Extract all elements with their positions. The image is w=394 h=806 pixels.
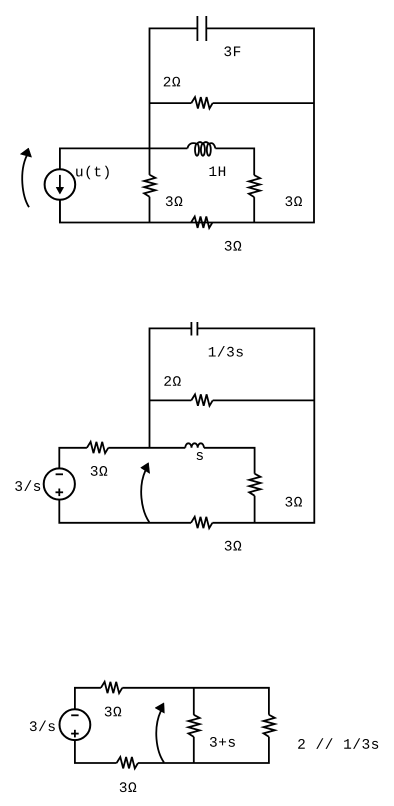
wire middle branch upper lead xyxy=(193,688,195,715)
wire top wire right segment and right rail xyxy=(197,328,314,522)
label 3-ohm (R6) xyxy=(91,466,108,476)
current source I1 u(t) xyxy=(45,169,76,200)
label 3-ohm (R4) xyxy=(225,241,242,251)
wire source V1 bottom lead and bottom rail left xyxy=(59,500,191,523)
wire source V1 top lead to series row xyxy=(59,448,87,469)
inductor L2 s xyxy=(185,443,204,448)
label 2-ohm (R5) xyxy=(164,376,180,386)
label u(t) xyxy=(76,166,109,180)
label 1H xyxy=(209,166,225,176)
label 1/3s xyxy=(209,346,243,357)
wire R6 to inductor L2 xyxy=(108,447,185,449)
wire 2-ohm row left lead xyxy=(150,399,192,401)
resistor R8 3-ohm bottom xyxy=(191,517,212,528)
label 3-ohm (R12) xyxy=(120,782,137,792)
resistor R9 3-ohm top xyxy=(101,682,122,693)
label 3/s (V2) xyxy=(30,720,55,731)
label 3/s (V1) xyxy=(15,480,40,491)
capacitor C1 3F plates xyxy=(197,16,206,41)
wire middle branch lower lead xyxy=(253,197,255,222)
label 3F xyxy=(224,46,240,56)
resistor R10 3+s vertical xyxy=(188,715,199,737)
wire top rail to right branch xyxy=(122,688,269,715)
label 3-ohm (R2) xyxy=(166,196,183,206)
wire source V2 top lead to top rail xyxy=(75,688,101,710)
wire source I1 bottom lead xyxy=(59,200,61,223)
resistor R5 2-ohm xyxy=(191,394,212,405)
label 2-ohm xyxy=(164,77,180,87)
inductor L1 1H xyxy=(187,142,215,156)
mesh arrow circuit 3 xyxy=(155,703,164,763)
circuit 1: RLC network driven by current source u(t) xyxy=(20,16,314,251)
resistor R3 3-ohm middle vertical xyxy=(249,175,260,197)
mesh arrow circuit 2 xyxy=(141,463,150,523)
label 3-ohm (R3) xyxy=(285,196,302,206)
label 3-ohm (R8) xyxy=(225,541,242,551)
resistor R12 3-ohm bottom xyxy=(117,757,138,768)
circuit 3: simplified equivalent network xyxy=(30,682,378,792)
mesh arrow circuit 1 xyxy=(20,148,31,207)
resistor R4 3-ohm bottom xyxy=(191,217,212,228)
wire top wire left segment with corner down the left rail xyxy=(150,28,198,175)
wire top wire left segment with corner down left rail xyxy=(150,328,192,447)
wire middle branch lower lead xyxy=(254,496,256,523)
voltage source V2 3/s xyxy=(60,709,91,740)
wire middle branch lower lead xyxy=(193,737,195,763)
label 3-ohm (R9) xyxy=(105,707,122,717)
circuit 2: s-domain network with source 3/s xyxy=(15,322,314,551)
wire top wire right segment, right rail and bottom rail xyxy=(60,28,314,222)
label 3+s (R10) xyxy=(210,737,235,747)
wire right branch lower lead and bottom rail xyxy=(138,737,269,763)
wire inductor row to middle branch corner xyxy=(215,148,254,175)
wire 2-ohm row left lead xyxy=(150,102,192,104)
label s xyxy=(197,452,203,460)
wire 2-ohm row right lead xyxy=(213,102,314,104)
resistor R11 2 parallel 1/3s xyxy=(264,715,275,737)
wire inductor L2 to middle branch corner xyxy=(204,448,255,474)
wire source V2 bottom lead and bottom rail left xyxy=(75,740,117,763)
label 3-ohm (R7) xyxy=(285,497,302,507)
capacitor C2 1/3s plates xyxy=(191,322,197,336)
resistor R1 2-ohm xyxy=(191,97,212,108)
voltage source V1 3/s xyxy=(44,468,75,499)
wire source I1 top lead and inductor row xyxy=(60,148,187,169)
wire 2-ohm row right lead xyxy=(213,399,315,401)
label 2 // 1/3s (R11) xyxy=(298,738,378,749)
wire left rail lower segment xyxy=(149,197,151,223)
resistor R7 3-ohm vertical xyxy=(249,474,260,496)
resistor R6 3-ohm series xyxy=(87,442,108,453)
resistor R2 3-ohm left vertical xyxy=(144,175,155,197)
